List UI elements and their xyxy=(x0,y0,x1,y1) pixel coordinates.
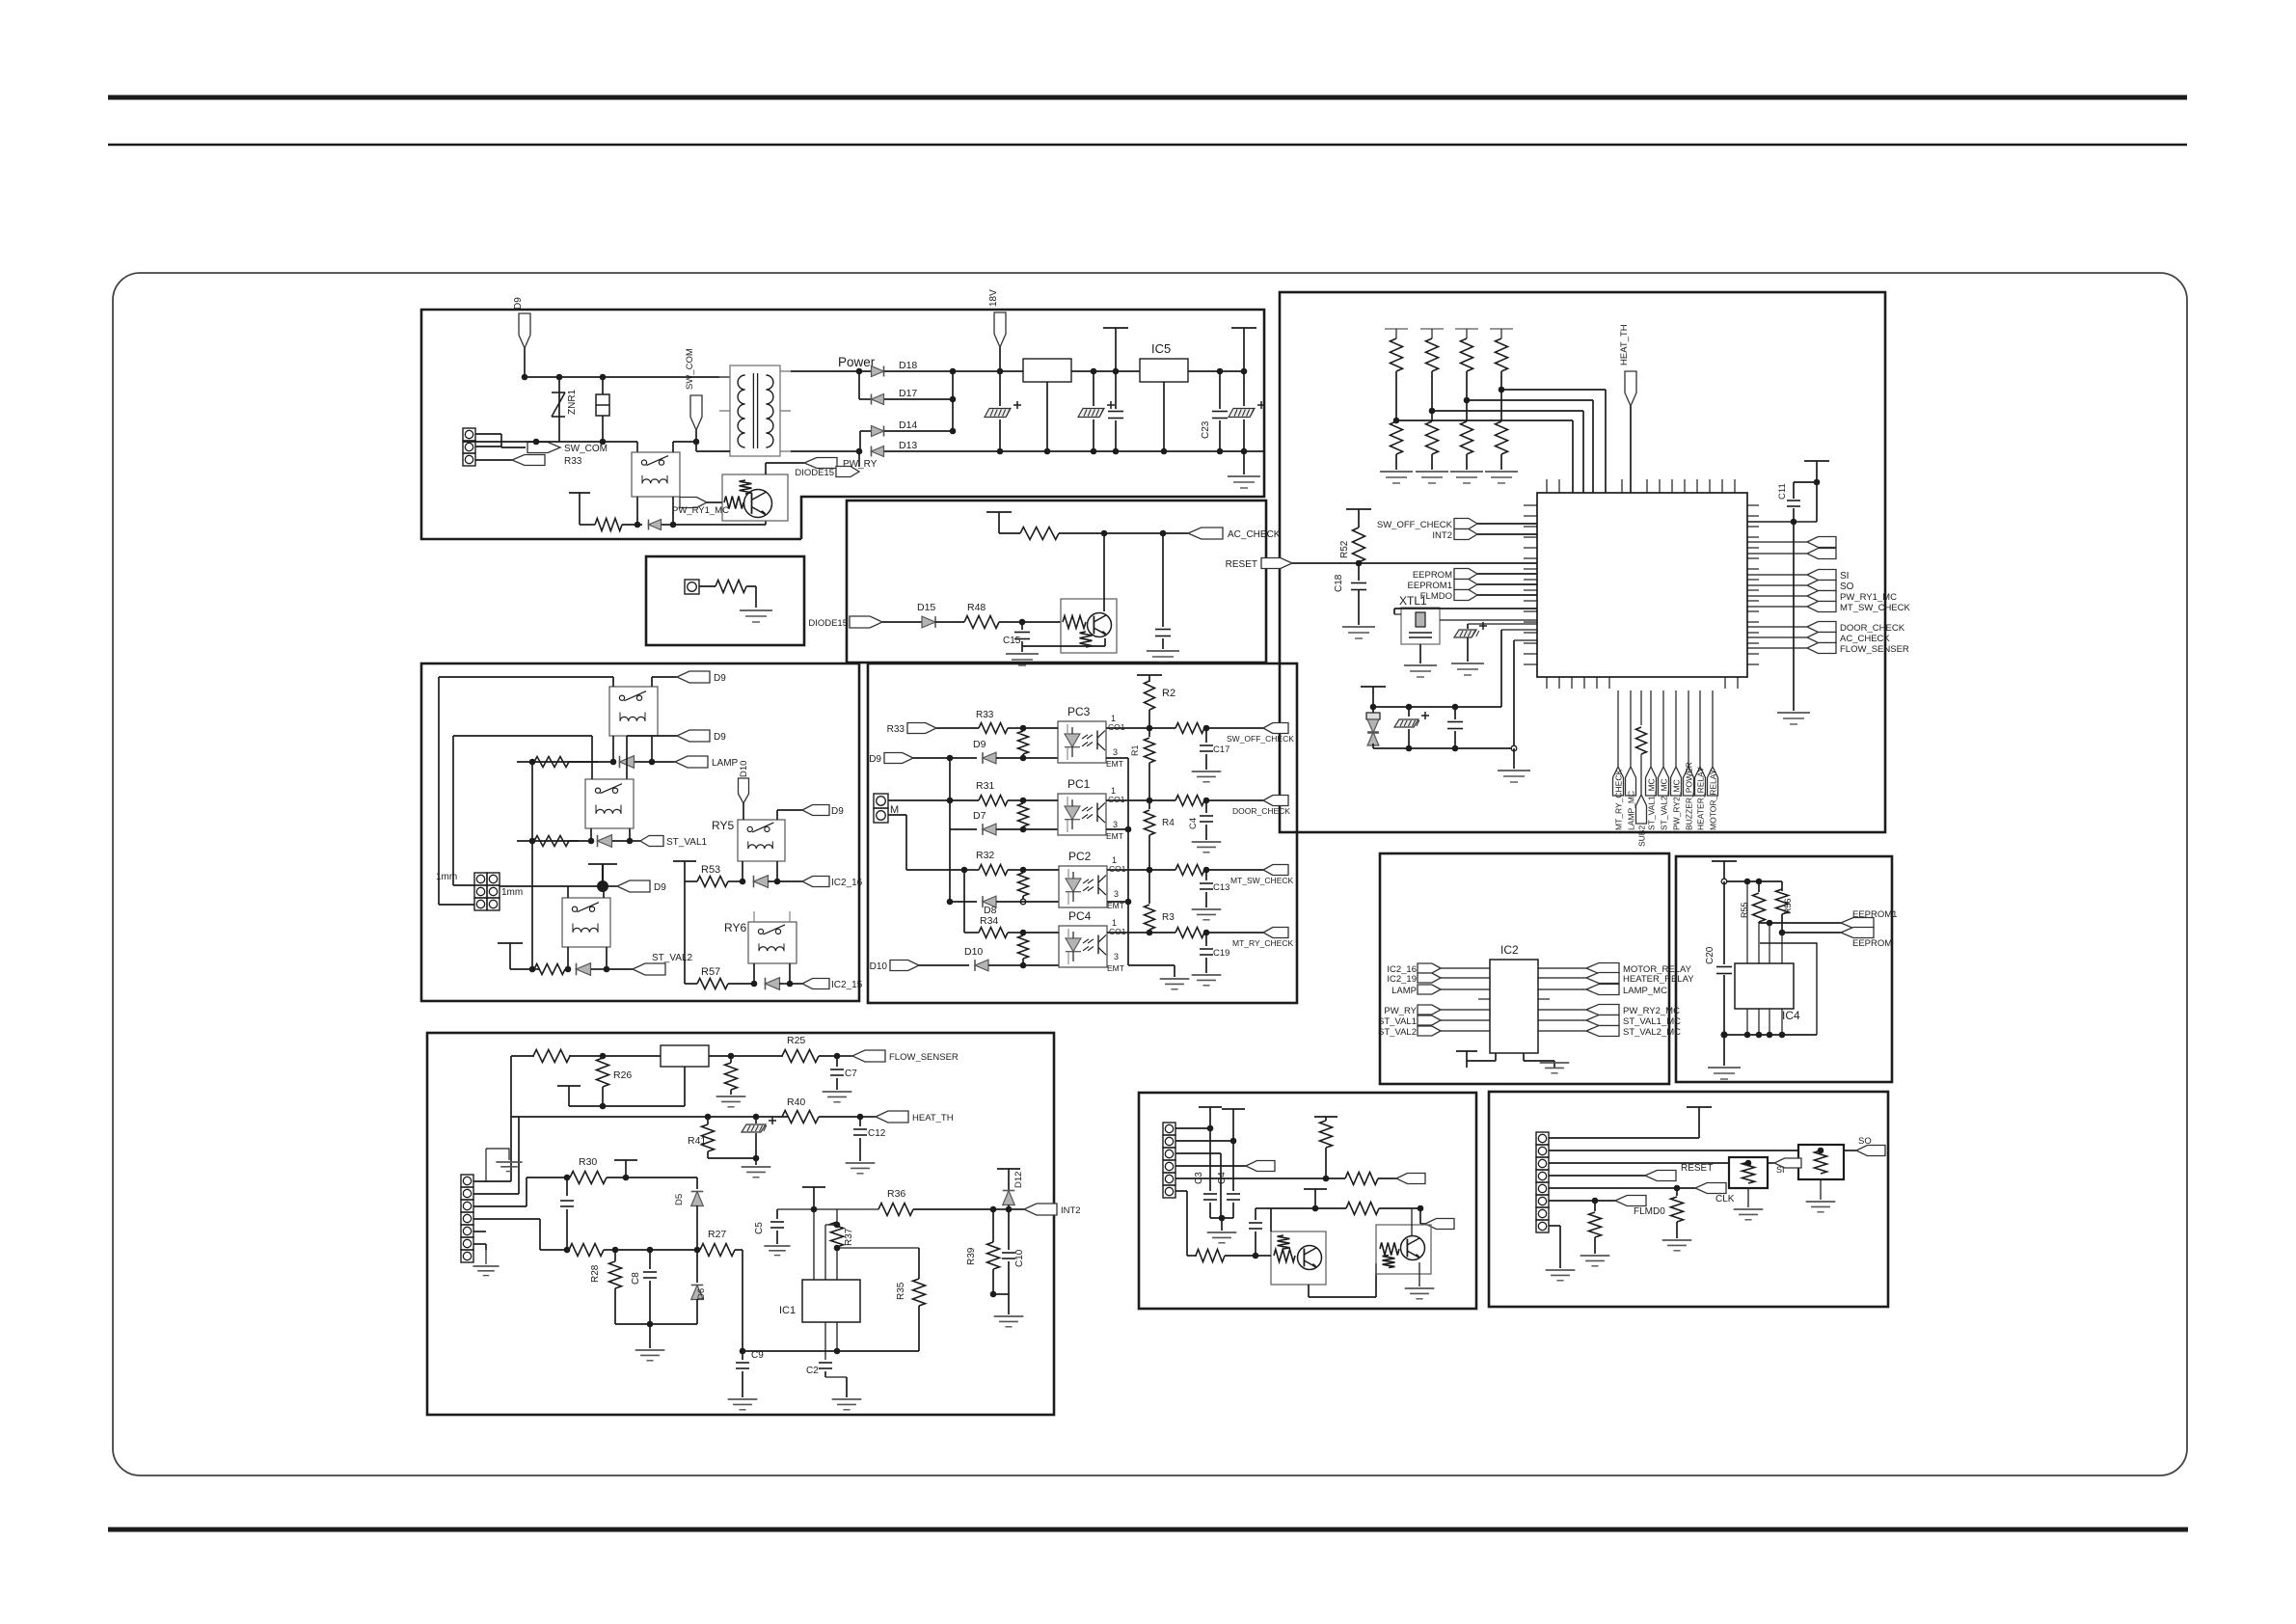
IC1 top pins xyxy=(813,1209,815,1280)
svg-text:SI: SI xyxy=(1840,571,1849,582)
row8 gnd xyxy=(1549,1225,1560,1227)
svg-text:D5: D5 xyxy=(674,1194,685,1205)
res R30 xyxy=(527,1177,567,1178)
bottom tie xyxy=(615,1323,697,1325)
MCU bottom extra pins xyxy=(1546,677,1548,689)
svg-text:C13: C13 xyxy=(1213,882,1229,893)
svg-text:LAMP_MC: LAMP_MC xyxy=(1627,791,1636,830)
C11 net xyxy=(1804,460,1829,462)
wire top rail xyxy=(559,376,730,378)
svg-text:EEPROM: EEPROM xyxy=(1413,570,1452,581)
svg-text:R40: R40 xyxy=(787,1096,805,1108)
svg-text:R2: R2 xyxy=(1162,688,1175,699)
svg-text:ZNR1: ZNR1 xyxy=(567,389,578,415)
svg-text:D10: D10 xyxy=(870,961,888,972)
power tap xyxy=(1712,860,1737,862)
flag LAMP_MC xyxy=(1538,988,1586,990)
svg-text:CO1: CO1 xyxy=(1109,864,1126,874)
svg-text:INT2: INT2 xyxy=(1061,1205,1081,1216)
flag HEATER_RELAY xyxy=(1538,977,1586,979)
svg-text:SO: SO xyxy=(1840,582,1854,592)
svg-text:INT2: INT2 xyxy=(1432,530,1452,541)
svg-text:D17: D17 xyxy=(899,388,917,399)
svg-text:PC3: PC3 xyxy=(1067,705,1091,718)
stval2 row xyxy=(510,968,532,970)
connector 8-pin xyxy=(1536,1132,1549,1145)
svg-text:1: 1 xyxy=(1112,918,1117,928)
svg-text:D9: D9 xyxy=(714,732,726,743)
flag D9 a xyxy=(651,677,653,687)
res R4 xyxy=(1148,800,1150,809)
row4 RESET xyxy=(1549,1175,1645,1177)
resistor xyxy=(595,519,622,531)
svg-text:C10: C10 xyxy=(1014,1249,1025,1267)
svg-text:CO1: CO1 xyxy=(1108,795,1125,804)
cap C8 xyxy=(649,1250,651,1269)
diode D9 xyxy=(983,752,996,764)
svg-text:PW_RY1_MC: PW_RY1_MC xyxy=(672,505,729,516)
svg-text:D10: D10 xyxy=(739,761,749,777)
bus wire left1 xyxy=(438,677,440,905)
flag MT_RY_CHECK xyxy=(1617,690,1619,767)
svg-text:C19: C19 xyxy=(1213,948,1229,959)
svg-text:R30: R30 xyxy=(579,1156,597,1168)
flag ST_VAL1 xyxy=(1418,1015,1441,1025)
res R31 xyxy=(979,796,1008,806)
caps gnd xyxy=(1210,1217,1233,1219)
SO gnd xyxy=(1820,1179,1822,1200)
row6 FLMDO xyxy=(1549,1200,1595,1202)
svg-text:EEPROM1: EEPROM1 xyxy=(1408,581,1452,591)
cap C10 xyxy=(1008,1209,1010,1250)
svg-text:C5: C5 xyxy=(754,1222,765,1234)
svg-text:AC_CHECK: AC_CHECK xyxy=(1840,634,1890,644)
connector 3-pin xyxy=(463,428,475,441)
flag mid xyxy=(1246,1161,1275,1172)
svg-text:D9: D9 xyxy=(831,806,844,817)
transistor box PW_RY1 xyxy=(722,474,788,521)
sensor block xyxy=(661,1045,709,1067)
program section box xyxy=(1489,1092,1888,1307)
emitter wire xyxy=(1104,638,1106,646)
pullup resistor bank xyxy=(1385,328,1408,330)
svg-text:R53: R53 xyxy=(701,864,720,876)
flag DIODE15 left xyxy=(850,616,882,628)
svg-text:C2: C2 xyxy=(806,1366,819,1376)
power tap zener xyxy=(1361,686,1386,688)
svg-text:HEAT_TH: HEAT_TH xyxy=(1619,324,1630,365)
svg-text:EMT: EMT xyxy=(1107,963,1124,973)
cap mid xyxy=(1115,371,1117,409)
power tap mid xyxy=(588,863,617,865)
gnd ic1 xyxy=(825,1376,847,1378)
res mid xyxy=(730,1056,732,1063)
flag D9 in xyxy=(884,753,913,764)
flag LAMP_MC xyxy=(1630,690,1632,767)
relay stval2 xyxy=(562,898,610,947)
conn row wire xyxy=(475,446,501,447)
svg-text:D15: D15 xyxy=(917,602,935,613)
sensor section box xyxy=(427,1033,1054,1415)
IC2 chip xyxy=(1490,960,1538,1053)
IC2 gnd left xyxy=(1495,1053,1497,1061)
flag IC2_16 xyxy=(777,880,802,882)
buffer section box xyxy=(1139,1093,1476,1309)
pull res pc3 xyxy=(1018,731,1029,754)
pc3 out xyxy=(1106,727,1149,729)
svg-text:PC2: PC2 xyxy=(1068,850,1092,863)
svg-text:1: 1 xyxy=(1111,714,1116,723)
svg-text:ST_VAL1_MC: ST_VAL1_MC xyxy=(1647,778,1657,830)
bottom rail xyxy=(1724,1034,1817,1036)
flag D9 b xyxy=(626,736,628,779)
cap C17 xyxy=(1205,728,1207,743)
outer rounded frame xyxy=(113,273,2187,1475)
cap C7 xyxy=(836,1056,838,1067)
transformer T1 xyxy=(730,365,780,456)
svg-text:R31: R31 xyxy=(976,780,994,792)
transistor box Q1 xyxy=(1271,1232,1326,1285)
res R33 xyxy=(979,723,1008,734)
flag EEPROM xyxy=(1454,569,1477,580)
flag DIODE15 xyxy=(836,467,859,477)
svg-text:PW_RY1_MC: PW_RY1_MC xyxy=(1840,592,1897,603)
svg-text:EEPROM: EEPROM xyxy=(1852,938,1892,949)
cap el r41 xyxy=(708,1157,756,1159)
res into q1 xyxy=(1187,1255,1197,1257)
svg-text:R28: R28 xyxy=(590,1264,601,1283)
flag R33 in xyxy=(907,723,936,734)
svg-text:R37: R37 xyxy=(844,1228,854,1246)
emt wire pc1 xyxy=(1106,828,1128,830)
res pullup xyxy=(1314,1116,1337,1118)
relay section box xyxy=(421,663,859,1001)
svg-text:R3: R3 xyxy=(1162,912,1175,923)
svg-text:FLOW_SENSER: FLOW_SENSER xyxy=(889,1052,959,1063)
opto section box xyxy=(868,663,1297,1003)
RY5 pins xyxy=(742,861,743,881)
diode bus wire xyxy=(952,371,954,431)
flag MOTOR_RELAY xyxy=(1538,967,1586,969)
svg-text:C8: C8 xyxy=(631,1272,641,1285)
res R56 xyxy=(1781,881,1783,891)
pull res pc4 xyxy=(1018,935,1029,959)
svg-text:SW_COM: SW_COM xyxy=(685,348,695,390)
svg-text:LAMP_MC: LAMP_MC xyxy=(1623,986,1667,996)
power tap st2 xyxy=(498,942,523,944)
zener pair xyxy=(1372,707,1374,713)
svg-text:SI: SI xyxy=(1776,1165,1785,1175)
diode D13 xyxy=(856,448,863,455)
cap C4 xyxy=(1205,800,1207,813)
lower link xyxy=(603,1105,685,1107)
pwr d12 xyxy=(997,1168,1020,1170)
svg-text:R26: R26 xyxy=(613,1069,632,1081)
svg-text:R36: R36 xyxy=(887,1188,905,1200)
cap C18 xyxy=(1358,571,1360,581)
power tap mid2 xyxy=(1304,1188,1327,1190)
cap el small xtal xyxy=(1468,623,1537,625)
svg-text:SW_OFF_CHECK: SW_OFF_CHECK xyxy=(1227,734,1294,744)
left rail A xyxy=(949,758,951,902)
SI box xyxy=(1729,1157,1768,1188)
pc1 out xyxy=(1106,799,1149,801)
svg-text:SO: SO xyxy=(1858,1136,1872,1147)
svg-text:D18: D18 xyxy=(899,360,917,371)
svg-text:MOTOR_RELAY: MOTOR_RELAY xyxy=(1709,769,1718,830)
svg-text:3: 3 xyxy=(1113,820,1118,829)
cap C4 xyxy=(1232,1141,1234,1191)
flag LAMP xyxy=(652,761,675,763)
svg-text:C4: C4 xyxy=(1217,1172,1228,1184)
svg-text:3: 3 xyxy=(1114,952,1119,961)
svg-text:Power: Power xyxy=(838,355,876,369)
svg-text:C15: C15 xyxy=(1003,636,1021,646)
R57 row xyxy=(684,881,686,984)
flag ST_VAL2_MC xyxy=(1538,1030,1586,1032)
IC4 chip xyxy=(1735,963,1794,1009)
svg-text:D14: D14 xyxy=(899,420,917,431)
wire to D5 xyxy=(626,1177,697,1178)
res out pc2 xyxy=(1149,869,1175,871)
svg-text:ST_VAL2: ST_VAL2 xyxy=(1378,1027,1417,1038)
svg-text:PW_RY2_MC: PW_RY2_MC xyxy=(1672,779,1682,830)
flag ST_VAL1_MC xyxy=(1538,1019,1586,1021)
flag ST_VAL1_MC xyxy=(1650,690,1652,767)
svg-text:CLK: CLK xyxy=(1715,1194,1735,1204)
opto PC1 xyxy=(1058,794,1106,835)
svg-text:DOOR_CHECK: DOOR_CHECK xyxy=(1232,806,1290,816)
svg-text:HEATER_RELAY: HEATER_RELAY xyxy=(1623,974,1694,985)
relay lamp xyxy=(609,687,658,736)
cap left xyxy=(566,1177,568,1196)
cap plain xyxy=(1454,707,1456,719)
svg-text:MT_SW_CHECK: MT_SW_CHECK xyxy=(1230,876,1294,885)
flag PW_RY1_MC xyxy=(680,498,707,508)
row1 xyxy=(1549,1137,1699,1139)
IC2 section box xyxy=(1380,853,1669,1084)
conn stub wires xyxy=(473,1180,511,1182)
svg-text:R35: R35 xyxy=(896,1282,906,1300)
IC4 section box xyxy=(1676,856,1892,1082)
flag PW_RY xyxy=(1418,1005,1441,1015)
stval1 pins xyxy=(590,828,592,841)
IC2 gnd right xyxy=(1523,1053,1525,1061)
RY6 relay xyxy=(748,922,797,963)
svg-text:R33: R33 xyxy=(887,724,905,735)
connector 6-pin xyxy=(1163,1123,1175,1135)
svg-text:IC2_16: IC2_16 xyxy=(831,878,863,888)
emt wire pc2 xyxy=(1107,901,1128,903)
flag SW_COM down xyxy=(695,430,697,442)
SO box xyxy=(1798,1145,1844,1179)
cap C12 xyxy=(859,1117,861,1126)
bus wire left2 xyxy=(452,736,454,885)
flag D9 top xyxy=(519,313,530,348)
stval1 row xyxy=(529,838,536,845)
svg-text:1mm: 1mm xyxy=(436,872,457,882)
resistor R2 xyxy=(1145,681,1155,710)
flag R33 xyxy=(475,459,512,461)
cap C2 xyxy=(824,1322,826,1360)
resistor R48 xyxy=(964,616,999,629)
top rule thin xyxy=(108,144,2187,147)
flag HEATER_RELAY xyxy=(1699,690,1701,767)
C20 line xyxy=(1723,881,1725,964)
svg-text:R39: R39 xyxy=(966,1247,977,1265)
EEPROM row xyxy=(1782,932,1841,934)
power tap xyxy=(986,511,1012,513)
R53 row xyxy=(673,860,696,862)
power tap mid xyxy=(1103,327,1128,329)
svg-text:IC4: IC4 xyxy=(1782,1009,1800,1022)
svg-text:C4: C4 xyxy=(1188,818,1199,829)
svg-text:1: 1 xyxy=(1112,855,1117,865)
svg-text:3: 3 xyxy=(1114,889,1119,899)
svg-text:IC1: IC1 xyxy=(779,1305,796,1316)
flag PW_RY xyxy=(765,463,767,474)
svg-text:MT_RY_CHECK: MT_RY_CHECK xyxy=(1614,770,1624,830)
res out pc4 xyxy=(1149,932,1175,934)
flag FLOW_SENSER right xyxy=(1747,647,1807,649)
flag PW_RY2_MC xyxy=(1538,1009,1586,1011)
res R26 xyxy=(597,1058,609,1087)
MCU chip IC3 xyxy=(1537,493,1747,677)
cap el plus xyxy=(1408,707,1410,717)
flag MT_SW_CHECK out xyxy=(1263,865,1288,876)
svg-text:D10: D10 xyxy=(964,946,983,958)
flag right1 xyxy=(1396,1174,1425,1184)
power tap top xyxy=(1687,1106,1712,1108)
diode D8 xyxy=(950,901,977,903)
flag D9 c xyxy=(603,885,617,887)
resistor R52 xyxy=(1353,528,1365,562)
diode D6 xyxy=(696,1250,698,1283)
flag LAMP xyxy=(1418,985,1441,994)
cap right xyxy=(1162,533,1164,627)
diode D12 xyxy=(1008,1169,1010,1190)
cap C23 xyxy=(1219,371,1221,409)
relay RY1 xyxy=(632,452,680,497)
cap electrolytic right xyxy=(1243,371,1245,406)
q2 emitter gnd xyxy=(1418,1262,1420,1286)
collector wire xyxy=(1103,533,1105,611)
flag HEAT_TH out xyxy=(860,1116,876,1118)
ground right xyxy=(1243,451,1245,474)
cap electrolytic 18V col xyxy=(999,371,1001,406)
wire SW_COM row xyxy=(463,441,637,443)
flag INT2 xyxy=(1454,529,1477,540)
svg-text:C7: C7 xyxy=(845,1069,857,1079)
diode D7 xyxy=(950,828,977,830)
flag SO xyxy=(1856,1146,1885,1156)
svg-text:1mm: 1mm xyxy=(501,887,523,898)
flag SUB2 xyxy=(1640,690,1642,725)
cap electrolytic 2 xyxy=(1093,371,1094,406)
flag 18V xyxy=(994,312,1006,347)
svg-text:C18: C18 xyxy=(1334,574,1344,592)
diode D15 xyxy=(922,616,935,628)
pull res pc1 xyxy=(1018,803,1029,826)
cap C13 xyxy=(1205,870,1207,880)
res right xyxy=(1326,1177,1345,1179)
svg-text:HEAT_TH: HEAT_TH xyxy=(912,1113,954,1123)
diode D18 xyxy=(856,368,863,375)
flag SO xyxy=(1747,584,1807,586)
svg-text:ST_VAL2: ST_VAL2 xyxy=(652,953,692,963)
svg-text:D9: D9 xyxy=(513,297,524,310)
MCU left pins xyxy=(1524,504,1537,506)
svg-text:D9: D9 xyxy=(654,882,666,893)
relay contact wire xyxy=(672,442,674,452)
svg-text:LAMP: LAMP xyxy=(712,758,739,769)
flag MOTOR_RELAY xyxy=(1712,690,1714,767)
res R27 xyxy=(700,1244,735,1257)
svg-text:D6: D6 xyxy=(696,1288,707,1300)
svg-text:AC_CHECK: AC_CHECK xyxy=(1228,529,1281,540)
svg-text:IC2: IC2 xyxy=(1500,943,1519,957)
bus wire mid xyxy=(531,762,533,969)
svg-text:LAMP: LAMP xyxy=(1391,986,1417,996)
MCU top pins xyxy=(1546,479,1548,493)
svg-text:C3: C3 xyxy=(1194,1172,1204,1184)
svg-text:IC2_15: IC2_15 xyxy=(831,980,863,990)
svg-text:EMT: EMT xyxy=(1106,759,1123,769)
diode D10 xyxy=(975,960,988,971)
svg-text:RY6: RY6 xyxy=(724,921,746,934)
svg-text:PW_RY: PW_RY xyxy=(1384,1006,1417,1016)
cap C19 xyxy=(1205,933,1207,946)
gnd c8 xyxy=(649,1324,651,1348)
svg-text:DIODE15: DIODE15 xyxy=(795,468,834,478)
flag EEPROM1 xyxy=(1454,580,1477,590)
gnd hook top xyxy=(485,1149,487,1181)
wire and ground xyxy=(746,585,756,587)
MCU right pins xyxy=(1747,504,1759,506)
gnd hook bottom xyxy=(485,1250,487,1264)
IC4 top pins xyxy=(1746,881,1748,963)
svg-text:SW_COM: SW_COM xyxy=(564,444,608,454)
top rail xyxy=(1724,880,1782,882)
svg-text:R25: R25 xyxy=(787,1035,805,1046)
connector 3x2 xyxy=(474,873,487,885)
svg-text:CO1: CO1 xyxy=(1109,927,1126,936)
flag ST_VAL2 xyxy=(607,968,633,970)
res R32 xyxy=(964,869,979,871)
AC_CHECK section box xyxy=(847,501,1266,663)
wires lower-left of MCU xyxy=(1501,629,1537,631)
row3 SI xyxy=(1549,1162,1729,1164)
power tap xyxy=(557,1085,581,1087)
flag AC_CHECK xyxy=(1188,528,1223,539)
flag DOOR_CHECK right xyxy=(1747,626,1807,628)
flag SW_OFF_CHECK out xyxy=(1263,723,1288,734)
res R34 xyxy=(979,928,1008,938)
svg-text:RESET: RESET xyxy=(1226,559,1257,570)
flag FLMDO xyxy=(1454,590,1477,601)
res flmdo xyxy=(1594,1201,1596,1211)
opto PC4 xyxy=(1059,926,1107,967)
resistor xyxy=(999,532,1020,534)
cap C9 xyxy=(740,1348,746,1355)
transistor box Q xyxy=(1061,599,1117,653)
flag SI xyxy=(1774,1158,1801,1168)
varistor ZNR1 xyxy=(558,377,560,442)
svg-text:XTL1: XTL1 xyxy=(1399,594,1427,608)
flag IC2_15 xyxy=(790,983,802,985)
wire to transistor xyxy=(673,524,766,526)
svg-text:IC2_19: IC2_19 xyxy=(1387,974,1417,985)
